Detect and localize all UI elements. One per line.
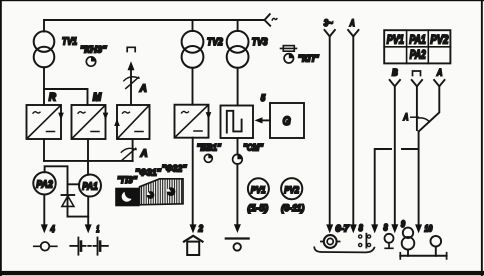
svg-text:A: A	[436, 68, 442, 79]
battery GB	[70, 238, 108, 255]
plug-socket pair 8	[359, 234, 371, 248]
svg-text:A: A	[349, 18, 355, 28]
wire: TV3 to pulse unit U5	[237, 68, 239, 106]
wire: TV3 top stub	[237, 20, 239, 31]
wire: PA2 down arrow 4	[43, 195, 45, 227]
svg-text:PA1: PA1	[82, 180, 98, 192]
rectifier M	[72, 105, 109, 139]
terminal table PV1 PA1 PV2 / PA2	[384, 30, 450, 63]
wire: feeder pulse down	[412, 80, 422, 86]
bell (horn) symbol	[184, 236, 203, 255]
transformer 9	[402, 228, 415, 256]
svg-text:10: 10	[424, 224, 432, 234]
svg-text:5: 5	[261, 93, 266, 104]
wire: inverter bottom with slash to A	[132, 139, 134, 161]
inverter U3	[114, 105, 149, 139]
push-button symbol	[226, 237, 249, 239]
svg-text:8: 8	[384, 222, 388, 232]
wire: G arrow into U5	[258, 119, 270, 121]
transformer TV2	[182, 31, 204, 53]
svg-text:G: G	[283, 116, 291, 128]
transformer TV1	[34, 31, 55, 52]
svg-text:PA2: PA2	[36, 179, 53, 191]
svg-text:"Ф32": "Ф32"	[162, 163, 187, 174]
svg-text:(6-11): (6-11)	[281, 203, 304, 213]
brace under 6-7,8	[314, 247, 374, 252]
svg-text:A: A	[140, 149, 148, 160]
diode VD1	[62, 195, 75, 206]
svg-text:(1-5): (1-5)	[248, 203, 269, 213]
svg-text:PA1: PA1	[409, 34, 426, 46]
hatched panel Ф31/Ф32 with clocks	[140, 179, 184, 205]
wire: feeder B down to arrow 9	[390, 80, 400, 86]
wire: arrow up to A with slash	[130, 65, 132, 105]
svg-text:В: В	[392, 68, 398, 79]
ammeter PA1	[79, 175, 101, 197]
wire: U4 down to arrow 2	[192, 138, 194, 226]
rectifier R	[27, 105, 64, 139]
svg-text:M: M	[93, 92, 102, 104]
wire: PA1 down arrow 1	[87, 197, 89, 227]
svg-text:PV2: PV2	[430, 34, 448, 46]
lamp 8	[385, 234, 394, 249]
svg-text:6-7: 6-7	[335, 224, 349, 234]
meter PV2 (6-11)	[281, 178, 304, 213]
node: supply fork with ~	[265, 14, 271, 26]
svg-text:TV1: TV1	[62, 36, 77, 47]
svg-text:9: 9	[401, 219, 405, 229]
ground bar	[400, 255, 446, 257]
svg-text:8: 8	[359, 223, 363, 233]
svg-text:R: R	[49, 92, 56, 104]
lamp symbol (circle with leads)	[34, 242, 57, 251]
black panel П3 with moon	[115, 188, 139, 207]
svg-text:"КН3": "КН3"	[80, 44, 107, 55]
lamp 10	[431, 236, 442, 256]
svg-text:2: 2	[198, 224, 203, 234]
svg-text:TV2: TV2	[207, 37, 223, 48]
wire: stub to PA1 left	[68, 183, 80, 185]
wire: PA2 branch to diode	[45, 166, 89, 216]
wire: feeder A down to arrow 8	[348, 30, 358, 36]
wire: M bottom to PA1	[87, 139, 89, 175]
svg-text:PV1: PV1	[387, 34, 404, 46]
wire: top supply bus	[44, 19, 265, 21]
wire: TV2 to rectifier U4	[192, 68, 194, 105]
pulse symbol above arrow A	[127, 47, 135, 51]
connector socket 6-7	[321, 235, 340, 248]
svg-text:"БВ1": "БВ1"	[197, 143, 222, 153]
wire: feeder A merging	[434, 80, 444, 86]
svg-text:1: 1	[96, 224, 99, 234]
svg-text:PA2: PA2	[410, 49, 426, 61]
svg-text:"Ф31": "Ф31"	[135, 168, 161, 179]
rectifier U4	[175, 105, 212, 138]
fuse "КП" with clock	[281, 46, 320, 65]
wire: merged feeder down to arrow 10	[418, 132, 420, 226]
wire: bus to R and M	[44, 89, 88, 105]
svg-text:A: A	[403, 112, 409, 122]
generator G	[270, 103, 304, 138]
pulse label	[413, 71, 421, 76]
wire: horizontal link to inverter	[44, 160, 133, 162]
svg-text:"СМ": "СМ"	[243, 142, 264, 152]
wire: U5 down through clock СМ	[237, 138, 239, 154]
transformer TV3	[227, 31, 249, 53]
svg-text:TV3: TV3	[252, 37, 268, 48]
meter PV1 (1-5)	[248, 178, 269, 213]
svg-text:PV1: PV1	[251, 185, 266, 196]
wire: TV1 top stub	[43, 20, 45, 32]
svg-text:PV2: PV2	[284, 185, 299, 196]
wire: branch to arrow 8 (crossing B)	[375, 149, 418, 225]
wire: TV1 bottom	[43, 67, 45, 89]
ammeter PA2	[33, 172, 55, 194]
svg-text:3~: 3~	[324, 18, 333, 28]
svg-text:"КП": "КП"	[298, 54, 319, 65]
wire: TV2 top stub	[192, 20, 194, 31]
svg-text:A: A	[139, 84, 147, 95]
pulse unit U5	[221, 106, 254, 139]
wire: R bottom to bus A	[43, 139, 45, 161]
wire: feeder 3~ down to arrow 6-7	[325, 30, 335, 36]
svg-text:4: 4	[50, 224, 55, 234]
